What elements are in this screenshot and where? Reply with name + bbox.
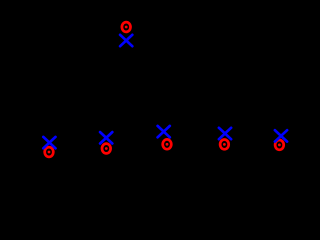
- atom O1 (top nitroso oxygen, red ring with dot): [122, 22, 131, 32]
- atom O4 (red ring with dot): [163, 139, 172, 149]
- atom N3 (blue X): [100, 132, 112, 143]
- atom N4 (blue X): [158, 126, 170, 137]
- atom N2 (blue X): [43, 137, 55, 148]
- atom O5 (red ring with dot): [220, 140, 229, 150]
- atom N5 (blue X): [219, 128, 231, 139]
- atom O6 (red ring with dot): [275, 140, 284, 150]
- atom N1 (top nitrogen, blue X): [120, 35, 132, 46]
- atom O2 (red ring with dot): [45, 147, 54, 157]
- atom N6 (blue X): [275, 130, 287, 141]
- atom O3 (red ring with dot): [102, 144, 111, 154]
